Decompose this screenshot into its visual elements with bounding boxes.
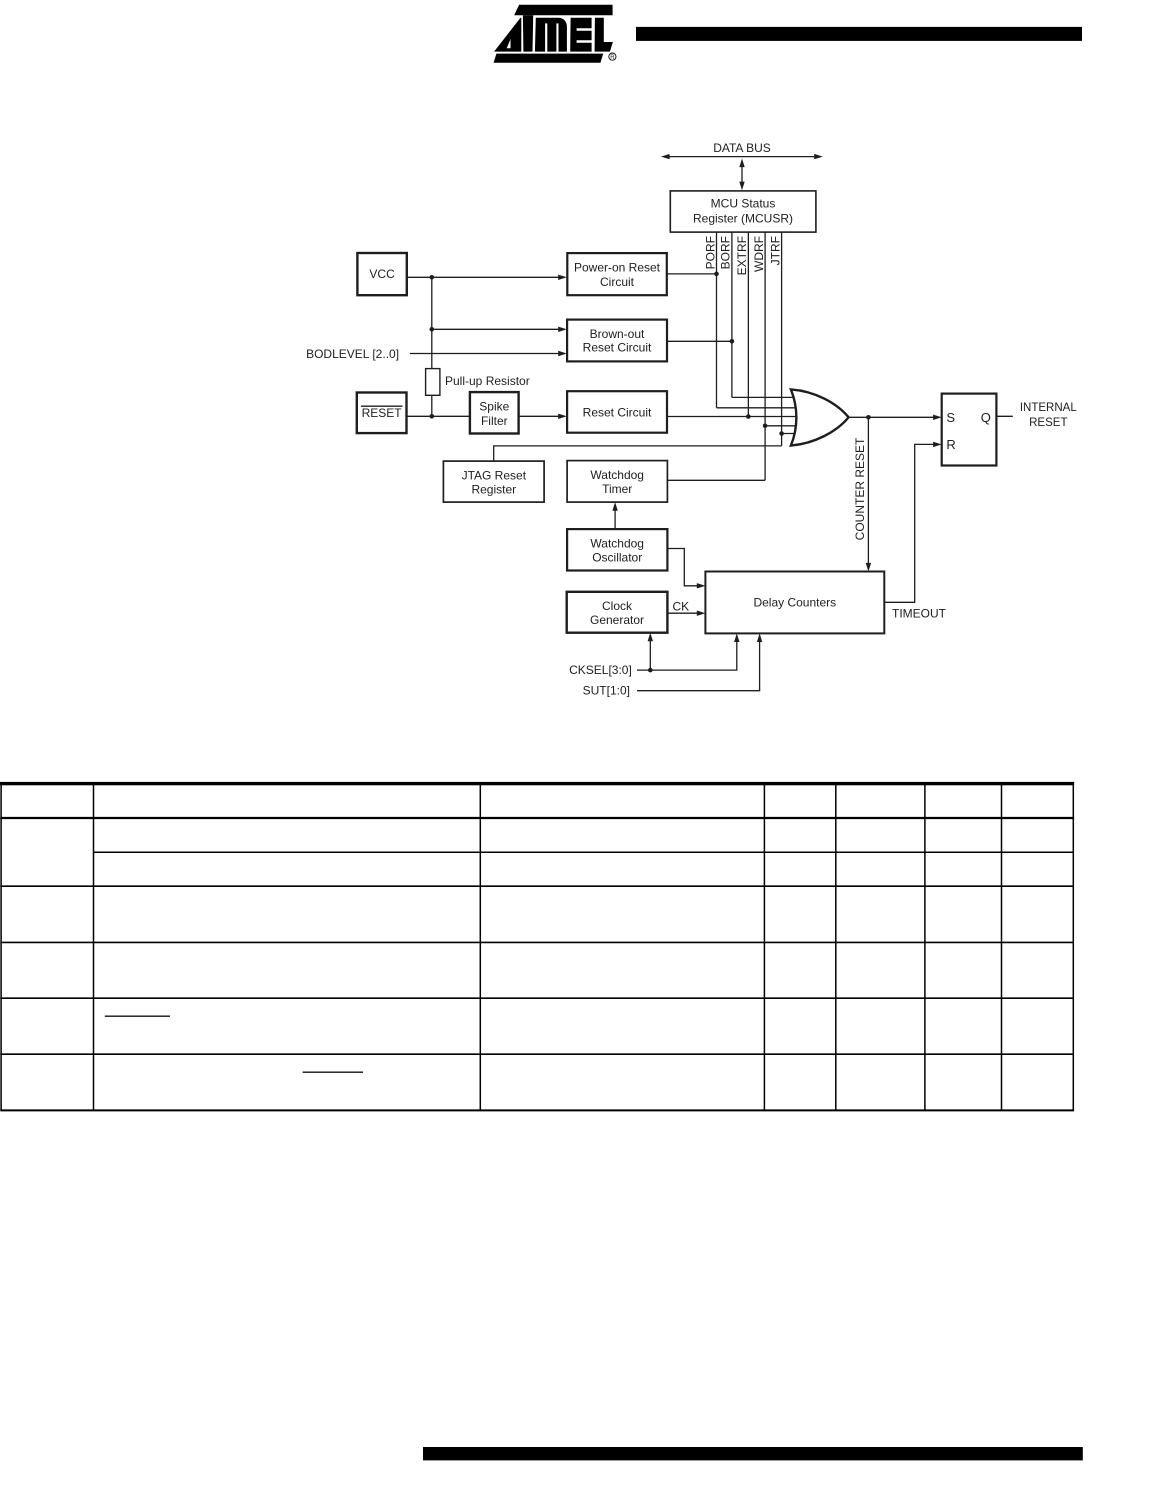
block RESET — [357, 393, 407, 434]
svg-text:VCC: VCC — [369, 267, 395, 281]
svg-text:Filter: Filter — [481, 414, 508, 428]
node overline row6 — [303, 1071, 363, 1073]
block Watchdog Oscillator — [567, 529, 667, 570]
wire Q output — [996, 415, 1012, 417]
wire TIMEOUT to R — [884, 442, 941, 603]
svg-text:BORF: BORF — [719, 236, 733, 269]
node junction CKSEL branch — [648, 668, 653, 673]
wire JTAG output to JTRF — [494, 446, 782, 461]
block Power-on Reset Circuit — [567, 253, 667, 295]
node junction EXTRF — [746, 414, 751, 419]
wire WDRF into gate — [765, 425, 798, 427]
block Reset Circuit — [567, 391, 667, 433]
svg-text:Oscillator: Oscillator — [592, 551, 642, 565]
svg-text:Spike: Spike — [479, 400, 509, 414]
svg-text:JTAG Reset: JTAG Reset — [462, 468, 527, 482]
wire DATA BUS horizontal double arrow — [661, 154, 823, 159]
svg-text:PORF: PORF — [703, 236, 717, 269]
svg-text:JTRF: JTRF — [768, 236, 782, 265]
wire gate output to S — [849, 415, 942, 420]
svg-text:Power-on Reset: Power-on Reset — [574, 261, 661, 275]
svg-text:Delay Counters: Delay Counters — [753, 596, 836, 610]
wire resistor to RESET wire — [431, 395, 433, 416]
svg-text:MCU Status: MCU Status — [711, 197, 776, 211]
wire Watchdog Oscillator to Watchdog Timer — [612, 502, 617, 529]
svg-text:Register: Register — [471, 483, 516, 497]
wire BORF into gate — [732, 396, 800, 398]
block VCC — [357, 253, 406, 295]
wire Power-on output to PORF — [667, 273, 717, 275]
node junction VCC branch — [430, 275, 435, 280]
node overline row5 — [105, 1015, 170, 1017]
svg-text:TIMEOUT: TIMEOUT — [892, 606, 947, 620]
wire Reset Circuit output to OR gate — [667, 416, 800, 418]
wire BODLEVEL to Brown-out — [410, 351, 567, 356]
wire VCC to Power-on Reset — [407, 275, 567, 280]
flip-flop SR latch — [942, 394, 997, 466]
wire VCC vertical branch down — [431, 277, 433, 368]
block Clock Generator — [567, 592, 668, 633]
node INTERNAL RESET label — [1020, 402, 1077, 429]
node junction Brown-out branch — [430, 327, 435, 332]
svg-text:SUT[1:0]: SUT[1:0] — [583, 683, 630, 697]
svg-text:DATA BUS: DATA BUS — [713, 141, 771, 155]
node junction BORF — [730, 339, 735, 344]
Atmel logo — [494, 5, 616, 63]
node junction RESET pull-up — [430, 414, 435, 419]
svg-text:Reset Circuit: Reset Circuit — [583, 405, 652, 419]
wire PORF line — [716, 232, 718, 408]
wire data bus to MCUSR vertical double arrow — [739, 159, 744, 191]
wire JTRF into gate — [782, 433, 800, 435]
OR gate U1 (reset sources) — [791, 389, 849, 445]
wire PORF into gate — [717, 407, 799, 409]
svg-text:EXTRF: EXTRF — [735, 236, 749, 275]
node junction counter reset — [866, 415, 871, 420]
block Spike Filter — [470, 392, 519, 433]
wire Watchdog Timer output to WDRF — [667, 479, 765, 481]
wire EXTRF line — [747, 232, 749, 417]
svg-text:RESET: RESET — [1029, 417, 1067, 429]
wire Brown-out output to BORF — [667, 340, 732, 342]
wire JTRF line — [781, 232, 783, 446]
svg-text:Generator: Generator — [590, 613, 644, 627]
wire branch to Brown-out — [432, 327, 567, 332]
wire CK to Delay Counters — [667, 611, 705, 616]
wire Spike Filter to Reset Circuit — [519, 414, 567, 419]
register MCUSR (MCU Status Register) — [670, 191, 816, 232]
svg-text:CK: CK — [673, 600, 690, 614]
svg-text:INTERNAL: INTERNAL — [1020, 402, 1077, 414]
node junction WDRF — [763, 424, 768, 429]
block Delay Counters — [705, 572, 884, 634]
header rule bar — [636, 27, 1082, 41]
wire Watchdog Oscillator to Delay Counters — [667, 549, 705, 589]
svg-text:Register (MCUSR): Register (MCUSR) — [693, 211, 793, 225]
resistor pull-up — [426, 369, 440, 396]
footer rule bar — [423, 1447, 1083, 1460]
svg-text:Brown-out: Brown-out — [590, 327, 645, 341]
wire RESET to Spike Filter — [407, 415, 470, 417]
svg-text:BODLEVEL [2..0]: BODLEVEL [2..0] — [306, 347, 399, 361]
svg-text:RESET: RESET — [362, 406, 403, 420]
svg-text:Watchdog: Watchdog — [590, 468, 644, 482]
svg-text:CKSEL[3:0]: CKSEL[3:0] — [569, 663, 632, 677]
svg-text:COUNTER RESET: COUNTER RESET — [853, 437, 867, 540]
block Watchdog Timer — [567, 461, 667, 503]
svg-text:Timer: Timer — [602, 482, 632, 496]
wire SUT to Delay Counters — [637, 633, 762, 690]
svg-text:Q: Q — [981, 410, 991, 425]
svg-text:R: R — [610, 55, 615, 61]
svg-text:Pull-up Resistor: Pull-up Resistor — [445, 374, 530, 388]
wire counter reset down to Delay Counters — [866, 417, 871, 571]
svg-text:Reset Circuit: Reset Circuit — [583, 340, 652, 354]
svg-text:S: S — [946, 410, 955, 425]
svg-text:Watchdog: Watchdog — [590, 536, 644, 550]
svg-text:WDRF: WDRF — [752, 236, 766, 272]
wire CKSEL to Clock Generator and Delay Counters — [637, 633, 740, 670]
table grid — [0, 782, 1074, 1111]
svg-text:Clock: Clock — [602, 599, 633, 613]
svg-text:Circuit: Circuit — [600, 275, 635, 289]
svg-text:R: R — [946, 437, 955, 452]
block JTAG Reset Register — [443, 461, 544, 502]
block Brown-out Reset Circuit — [567, 320, 667, 362]
wire WDRF line — [764, 232, 766, 481]
node junction JTRF — [779, 431, 784, 436]
wire BORF line — [731, 232, 733, 398]
node junction PORF — [714, 272, 719, 277]
